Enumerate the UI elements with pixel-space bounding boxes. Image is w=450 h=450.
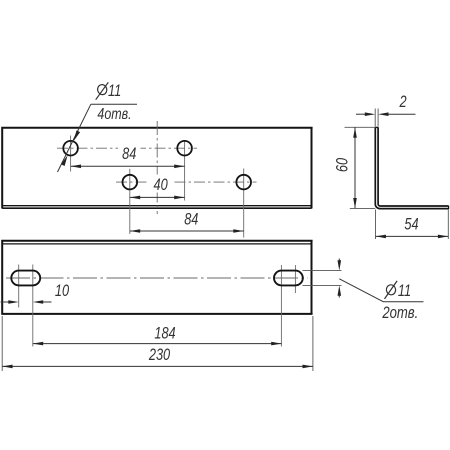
dimension 184: extensions are slot verticals; line and arrows [33, 343, 282, 345]
dimension 54: line and arrows [376, 235, 449, 237]
leader callout d11 4otv: diameter dim line through hole H1 [58, 104, 91, 172]
hole H2 centerline vertical [184, 140, 186, 201]
slot S1 arc-center verticals [18, 265, 20, 308]
front view bottom outline [2, 207, 311, 209]
svg-text:10: 10 [55, 282, 70, 300]
svg-text:2: 2 [399, 93, 407, 111]
front view outline (plate 230x60) [1, 127, 312, 209]
svg-text:40: 40 [153, 177, 168, 195]
leader callout d11 2otv [339, 279, 383, 302]
dimension 60 extension lines [345, 126, 376, 128]
dimension 230: line and arrows [2, 365, 313, 367]
hole H4 centerline vertical [243, 169, 245, 238]
bottom view centerline [6, 277, 308, 279]
L-profile right end cap [448, 206, 450, 209]
dimension 84 bottom: line and arrows [130, 230, 244, 232]
slot S2 (right obround) [274, 271, 303, 286]
svg-text:54: 54 [404, 216, 418, 234]
hole H1 [63, 141, 78, 156]
dimension 40: line and arrows [130, 196, 185, 198]
svg-text:2отв.: 2отв. [381, 304, 418, 323]
slot S2 tangent extension lines [303, 270, 342, 272]
centerline row1 [57, 147, 197, 149]
slot S2 arc-center verticals [280, 265, 282, 347]
diameter symbol right callout [385, 281, 398, 299]
dimension 60: line and arrows [354, 127, 356, 208]
svg-text:11: 11 [398, 283, 411, 301]
dimension 230 extension lines [1, 316, 3, 371]
L-profile outer surface [375, 127, 448, 208]
dimension 11 slot: outside arrows vertical [338, 259, 340, 263]
dimension 2: outside arrows [356, 113, 366, 115]
svg-text:4отв.: 4отв. [97, 106, 131, 124]
L-profile inner surface [378, 127, 449, 206]
dimension 10: line, outside arrows [1, 301, 10, 303]
arrowheads on hole H1 [74, 130, 81, 141]
bottom view bend tangent line [2, 243, 311, 245]
dimension 2 extension lines [374, 109, 376, 127]
front view bend tangent line [2, 205, 311, 207]
dimension 54 extension lines [375, 210, 377, 240]
bottom view outline (plate 230x54) [1, 240, 312, 315]
callout shelf [91, 103, 137, 105]
hole H1 centerline vertical [70, 136, 72, 172]
diameter symbol top callout [96, 82, 109, 99]
hole H4 [236, 175, 251, 190]
vertical symmetry centerline [156, 121, 158, 214]
svg-text:60: 60 [334, 157, 352, 172]
hole H3 [123, 175, 138, 190]
slot S1 (left obround) [11, 271, 40, 286]
text mask 84 top [118, 144, 141, 161]
svg-text:11: 11 [108, 83, 121, 101]
svg-text:84: 84 [122, 146, 136, 164]
dimension 84 top: line and arrows [71, 165, 185, 167]
svg-text:84: 84 [184, 211, 198, 229]
hole H2 [177, 141, 192, 156]
svg-text:230: 230 [148, 346, 171, 364]
svg-text:184: 184 [154, 325, 175, 343]
text mask 40 [150, 175, 172, 193]
L-profile top cap [375, 126, 378, 128]
hole H3 centerline vertical [129, 169, 131, 234]
centerline row2 [116, 181, 257, 183]
